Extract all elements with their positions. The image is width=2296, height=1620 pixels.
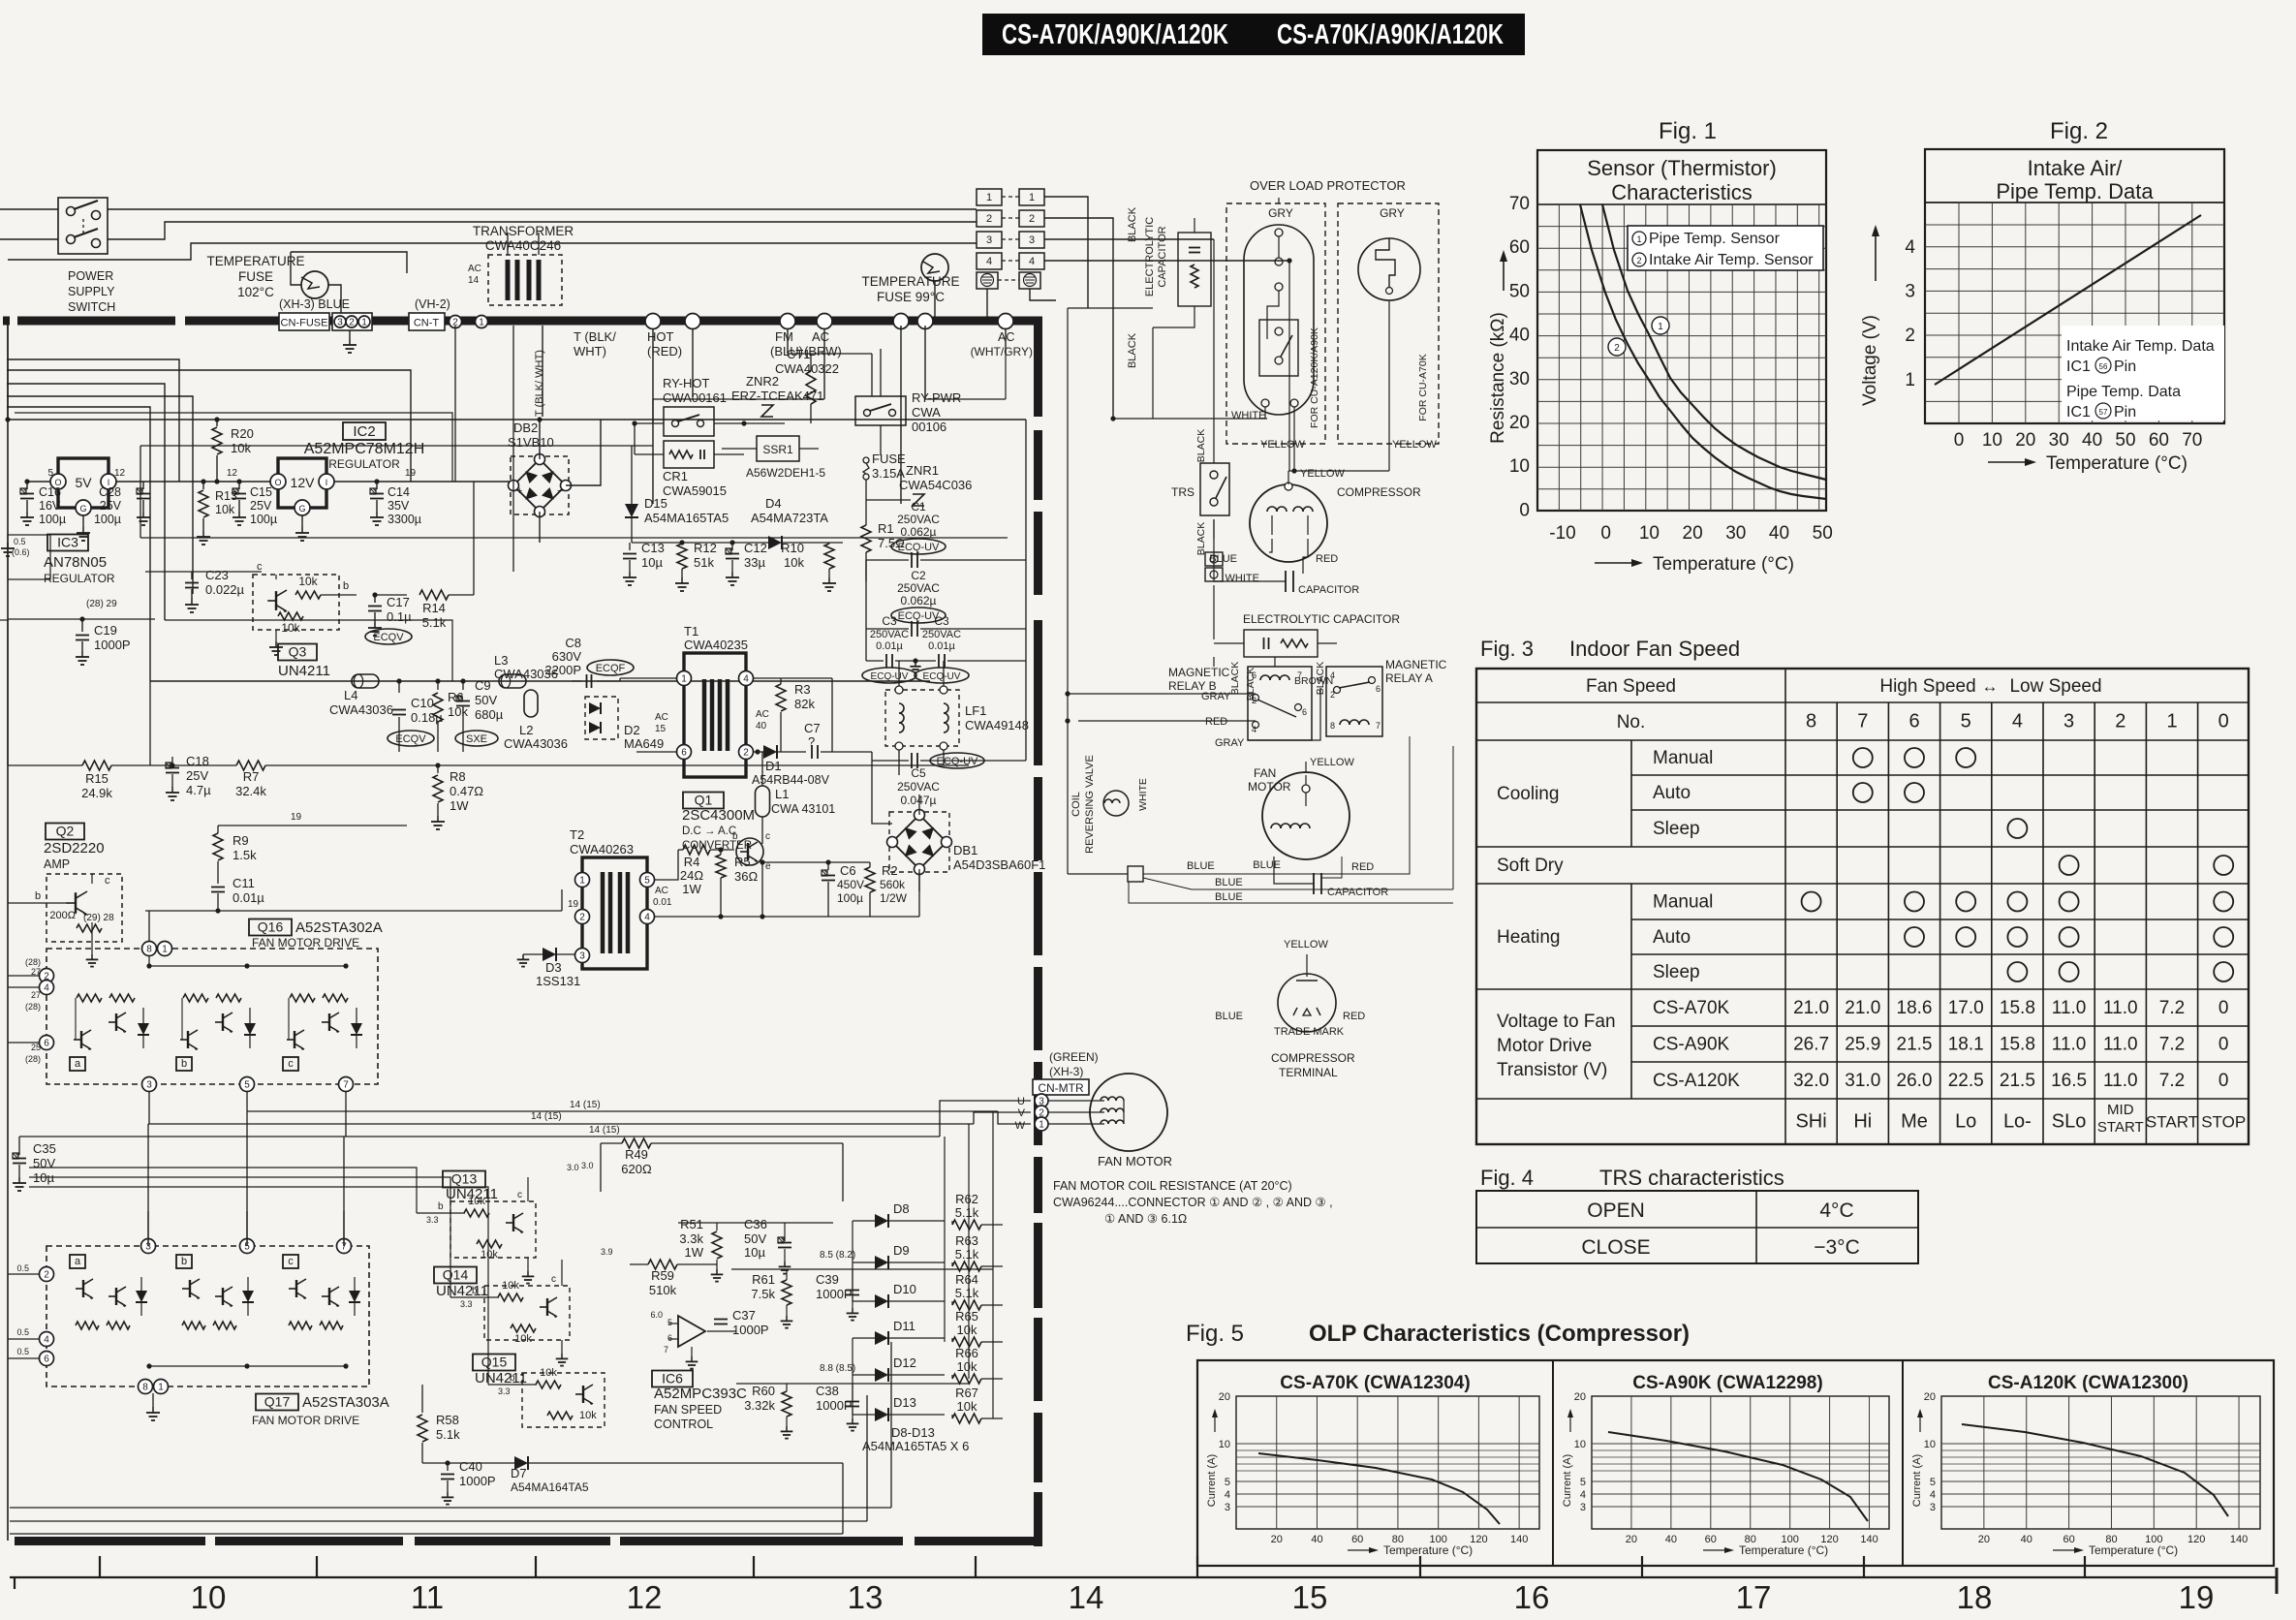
svg-text:MID: MID [2107, 1102, 2134, 1118]
svg-text:1: 1 [361, 318, 367, 328]
svg-text:17.0: 17.0 [1948, 998, 1984, 1018]
svg-text:1000P: 1000P [94, 638, 131, 652]
inductor L4 CWA43036 [352, 674, 379, 688]
svg-text:COIL: COIL [1070, 792, 1082, 817]
capacitor C12 33u [731, 543, 733, 550]
svg-text:MAGNETIC: MAGNETIC [1168, 666, 1230, 679]
svg-text:0.01µ: 0.01µ [876, 640, 903, 652]
svg-text:C5: C5 [911, 766, 926, 780]
resistor R6 10k [437, 681, 439, 690]
curve point markers [1652, 317, 1669, 334]
svg-text:FOR CU-A120K/A90K: FOR CU-A120K/A90K [1309, 327, 1320, 428]
svg-text:0.01µ: 0.01µ [928, 640, 955, 652]
svg-text:25V: 25V [100, 499, 122, 513]
label Q13 UN4211 [443, 1171, 485, 1188]
svg-text:20: 20 [1219, 1391, 1230, 1403]
svg-text:2SC4300M: 2SC4300M [682, 807, 755, 824]
svg-text:50: 50 [1509, 281, 1530, 301]
svg-text:70: 70 [1509, 194, 1530, 214]
svg-text:2: 2 [1252, 696, 1257, 705]
ground below CN-FUSE [349, 330, 351, 339]
svg-text:ECQF: ECQF [596, 663, 626, 674]
svg-text:60: 60 [2149, 430, 2169, 451]
label IC2 A52MPC78M12H regulator [343, 422, 386, 440]
svg-text:b: b [181, 1256, 187, 1267]
svg-text:C16: C16 [39, 485, 61, 499]
svg-text:R63: R63 [955, 1233, 978, 1248]
svg-text:a: a [75, 1256, 81, 1267]
dashed box OLP CU-A70K [1338, 203, 1439, 444]
svg-text:60: 60 [1351, 1534, 1363, 1545]
svg-text:-10: -10 [1549, 523, 1575, 544]
svg-text:Fig. 4: Fig. 4 [1480, 1166, 1534, 1190]
svg-text:4: 4 [2012, 711, 2023, 732]
svg-text:10k: 10k [281, 621, 300, 635]
svg-text:IC1: IC1 [2066, 358, 2091, 375]
svg-text:35V: 35V [388, 499, 410, 513]
svg-text:FAN: FAN [1254, 766, 1276, 780]
svg-text:30: 30 [1509, 369, 1530, 389]
svg-text:R14: R14 [422, 601, 446, 615]
wire 19 line [145, 910, 562, 912]
svg-text:12V: 12V [291, 475, 316, 490]
svg-text:82k: 82k [794, 697, 815, 711]
svg-text:R66: R66 [955, 1346, 978, 1360]
label Q15 UN4211 [473, 1355, 515, 1371]
svg-text:1W: 1W [682, 882, 701, 896]
svg-text:30: 30 [1725, 523, 1746, 544]
svg-text:UN4211: UN4211 [278, 663, 330, 679]
svg-text:D11: D11 [893, 1319, 915, 1333]
svg-text:R59: R59 [651, 1268, 674, 1283]
svg-text:A52STA302A: A52STA302A [295, 919, 383, 936]
svg-text:D8-D13: D8-D13 [891, 1425, 935, 1440]
svg-text:RED: RED [1343, 1011, 1365, 1022]
svg-text:R64: R64 [955, 1272, 978, 1287]
svg-text:15.8: 15.8 [2000, 1035, 2035, 1055]
svg-text:10: 10 [1639, 523, 1660, 544]
svg-text:A52MPC78M12H: A52MPC78M12H [304, 441, 425, 457]
svg-text:Heating: Heating [1497, 927, 1561, 948]
svg-text:TRANSFORMER: TRANSFORMER [473, 224, 574, 238]
svg-text:0.5: 0.5 [16, 1327, 29, 1337]
svg-text:POWER: POWER [68, 269, 113, 283]
svg-text:5.1k: 5.1k [436, 1427, 460, 1442]
svg-text:10k: 10k [231, 441, 251, 455]
svg-text:Soft Dry: Soft Dry [1497, 856, 1564, 876]
fan motor (indoor) [1090, 1074, 1167, 1151]
svg-text:(XH-3) BLUE: (XH-3) BLUE [279, 297, 350, 311]
svg-text:CS-A70K: CS-A70K [1653, 998, 1730, 1018]
svg-text:C39: C39 [816, 1272, 839, 1287]
label IC3 AN78N05 [47, 535, 88, 551]
svg-text:L3: L3 [494, 653, 508, 668]
svg-text:25: 25 [31, 1043, 41, 1052]
svg-text:AN78N05: AN78N05 [44, 554, 107, 571]
svg-text:1: 1 [1636, 234, 1641, 244]
svg-text:10k: 10k [468, 1196, 485, 1207]
svg-text:20: 20 [1978, 1534, 1990, 1545]
svg-text:1W: 1W [685, 1245, 704, 1260]
svg-text:C15: C15 [250, 485, 272, 499]
wires DB2 [539, 420, 541, 459]
svg-text:↔: ↔ [1982, 677, 1999, 696]
diode pair D2 MA649 (dashed) [585, 697, 618, 739]
fig5 curve 1 [1258, 1453, 1500, 1524]
wire resistor column verticals [944, 1137, 946, 1229]
svg-text:2: 2 [1330, 690, 1335, 700]
svg-text:10µ: 10µ [641, 555, 663, 570]
svg-text:T (BLK/: T (BLK/ [574, 329, 616, 344]
wire top rails to connectors [0, 208, 58, 210]
resistor R2 560k 1/2W [865, 867, 875, 892]
diode D12 [853, 1374, 875, 1376]
fig5 curve 3 [1962, 1424, 2228, 1516]
svg-text:WHITE: WHITE [1231, 410, 1265, 421]
svg-text:19: 19 [405, 468, 417, 479]
svg-text:2SD2220: 2SD2220 [44, 840, 105, 857]
svg-text:7: 7 [1857, 711, 1868, 732]
svg-text:0.062µ: 0.062µ [901, 594, 937, 607]
capacitor C16 16V 100u [26, 482, 28, 489]
svg-text:Motor Drive: Motor Drive [1497, 1036, 1592, 1056]
svg-text:50V: 50V [475, 693, 497, 707]
resistor R5 36ohm [716, 855, 726, 878]
rail 5V supply [5, 417, 10, 421]
relay RY-PWR CWA 00106 [855, 396, 906, 425]
svg-text:A54RB44-08V: A54RB44-08V [752, 773, 830, 787]
svg-text:510k: 510k [649, 1283, 677, 1297]
svg-text:U: U [1017, 1096, 1025, 1107]
dashed box OLP CU-A120K/A90K [1226, 203, 1325, 444]
diode D9 [853, 1262, 875, 1263]
svg-text:Temperature (°C): Temperature (°C) [1383, 1543, 1473, 1557]
right thick border (indoor unit) [1034, 321, 1042, 417]
svg-text:10: 10 [1219, 1439, 1230, 1450]
svg-text:15: 15 [1292, 1579, 1328, 1615]
svg-text:40: 40 [1665, 1534, 1677, 1545]
svg-text:D4: D4 [765, 496, 782, 511]
svg-text:CWA43036: CWA43036 [329, 702, 393, 717]
svg-text:Sensor (Thermistor): Sensor (Thermistor) [1587, 156, 1777, 180]
svg-text:Intake Air/: Intake Air/ [2028, 156, 2124, 180]
svg-text:1: 1 [579, 876, 585, 887]
bottom thick bus [15, 1537, 205, 1545]
svg-text:C11: C11 [233, 876, 255, 890]
svg-text:YELLOW: YELLOW [1392, 439, 1437, 451]
svg-text:IC6: IC6 [662, 1371, 683, 1386]
svg-text:3.3: 3.3 [426, 1215, 439, 1225]
svg-text:CS-A70K/A90K/A120K: CS-A70K/A90K/A120K [1277, 19, 1504, 50]
svg-text:3.32k: 3.32k [744, 1398, 775, 1413]
ground IC1 G pin [82, 515, 84, 527]
svg-text:C18: C18 [186, 754, 209, 768]
svg-text:19: 19 [568, 899, 579, 910]
svg-text:7.2: 7.2 [2159, 1071, 2185, 1091]
svg-text:Q14: Q14 [443, 1267, 469, 1283]
svg-text:31.0: 31.0 [1845, 1071, 1880, 1091]
svg-text:V: V [1018, 1107, 1026, 1119]
svg-text:BLACK: BLACK [1127, 332, 1138, 368]
svg-text:19: 19 [2179, 1579, 2215, 1615]
fig2 legend [2062, 326, 2224, 421]
svg-text:0.47Ω: 0.47Ω [450, 784, 483, 798]
svg-text:Lo-: Lo- [2003, 1111, 2032, 1133]
svg-text:BLUE: BLUE [1215, 891, 1243, 903]
svg-text:1SS131: 1SS131 [536, 974, 580, 988]
svg-text:Temperature (°C): Temperature (°C) [1739, 1543, 1828, 1557]
svg-text:0.5: 0.5 [16, 1347, 29, 1356]
svg-text:SWITCH: SWITCH [68, 300, 115, 314]
svg-text:630V: 630V [552, 649, 582, 664]
svg-text:1.5k: 1.5k [233, 848, 257, 862]
svg-text:0: 0 [1954, 430, 1965, 451]
svg-text:D3: D3 [545, 960, 562, 975]
wire q15 base feed [29, 1187, 488, 1385]
svg-text:R65: R65 [955, 1309, 978, 1324]
svg-text:Temperature (°C): Temperature (°C) [2046, 453, 2187, 474]
svg-text:18.6: 18.6 [1897, 998, 1933, 1018]
diode D15 A54MA165TA5 [625, 504, 638, 517]
svg-text:250VAC: 250VAC [897, 513, 940, 526]
svg-text:102°C: 102°C [237, 285, 274, 299]
svg-text:3.9: 3.9 [601, 1247, 613, 1257]
svg-text:OPEN: OPEN [1587, 1199, 1645, 1222]
svg-text:BLACK: BLACK [1229, 662, 1241, 695]
wire heavy accent segments [542, 326, 543, 417]
wire rails upper left [7, 359, 179, 482]
svg-text:2: 2 [2115, 711, 2125, 732]
svg-text:CWA49148: CWA49148 [965, 718, 1029, 732]
svg-text:ECQ-UV: ECQ-UV [871, 671, 909, 682]
svg-text:4: 4 [644, 913, 650, 923]
svg-text:(28): (28) [25, 1002, 41, 1012]
svg-text:C12: C12 [744, 541, 767, 555]
resistor R58 5.1k [421, 1385, 423, 1413]
svg-text:4: 4 [44, 983, 49, 994]
svg-text:YELLOW: YELLOW [1284, 939, 1328, 950]
svg-text:0: 0 [2218, 998, 2229, 1018]
svg-text:6: 6 [44, 1039, 49, 1049]
svg-text:26.7: 26.7 [1793, 1035, 1829, 1055]
svg-text:33µ: 33µ [744, 555, 765, 570]
svg-text:5: 5 [1580, 1477, 1586, 1488]
svg-text:RY-PWR: RY-PWR [912, 390, 961, 405]
OLP stadium (CU-A120K/A90K) [1244, 225, 1314, 415]
wire long verticals from bus area [454, 326, 456, 482]
svg-text:10k: 10k [957, 1399, 977, 1414]
fig2 x axis label [1988, 461, 2027, 463]
svg-text:1: 1 [1905, 370, 1915, 390]
svg-text:L2: L2 [519, 723, 533, 737]
resistor R9 1.5k [217, 826, 219, 833]
capacitor C14 35V 3300u [376, 482, 378, 489]
svg-text:AC: AC [655, 886, 668, 896]
svg-text:ECQ-UV: ECQ-UV [923, 671, 961, 682]
svg-text:50: 50 [1813, 523, 1833, 544]
svg-text:1: 1 [1658, 322, 1663, 332]
svg-text:2: 2 [1029, 213, 1035, 225]
svg-text:Voltage (V): Voltage (V) [1860, 315, 1880, 406]
svg-text:680µ: 680µ [475, 707, 504, 722]
svg-text:50V: 50V [33, 1156, 55, 1170]
earth terminals [977, 272, 998, 289]
svg-text:10k: 10k [784, 555, 804, 570]
svg-text:b: b [472, 1286, 478, 1296]
svg-text:D1: D1 [765, 759, 782, 773]
wire rails to fan motor connector [148, 1123, 974, 1125]
label Q16 A52STA302A fan motor drive [249, 919, 292, 936]
svg-text:14 (15): 14 (15) [531, 1111, 562, 1122]
svg-text:14 (15): 14 (15) [589, 1125, 620, 1136]
svg-text:IC1: IC1 [2066, 404, 2091, 421]
svg-text:D15: D15 [644, 496, 667, 511]
line filter LF1 CWA49148 [885, 690, 959, 746]
resistor R4 24ohm 1W [683, 845, 710, 855]
svg-text:A54D3SBA60F1: A54D3SBA60F1 [953, 857, 1045, 872]
svg-text:14: 14 [1069, 1579, 1104, 1615]
svg-text:A52STA303A: A52STA303A [302, 1394, 389, 1411]
svg-text:5.1k: 5.1k [955, 1286, 979, 1300]
svg-text:00106: 00106 [912, 420, 946, 434]
svg-text:R4: R4 [684, 855, 700, 869]
svg-text:D9: D9 [893, 1243, 910, 1258]
wire 12V input [143, 481, 278, 483]
svg-text:21.0: 21.0 [1845, 998, 1880, 1018]
svg-text:C9: C9 [475, 678, 491, 693]
resistor R13 10k [202, 482, 204, 489]
svg-text:10k: 10k [298, 575, 318, 588]
svg-text:25V: 25V [186, 768, 208, 783]
svg-text:R10: R10 [781, 541, 804, 555]
resistor R7 32.4k [236, 761, 265, 770]
svg-text:O: O [274, 478, 281, 487]
svg-text:FAN MOTOR COIL RESISTANCE (AT: FAN MOTOR COIL RESISTANCE (AT 20°C) [1053, 1179, 1292, 1193]
svg-text:5: 5 [1961, 711, 1971, 732]
small connector 2pin [1205, 552, 1223, 566]
svg-text:GRY: GRY [1268, 206, 1293, 220]
svg-text:BLACK: BLACK [1195, 522, 1207, 555]
svg-text:Cooling: Cooling [1497, 784, 1559, 804]
svg-text:RY-HOT: RY-HOT [663, 376, 709, 390]
svg-text:10k: 10k [957, 1359, 977, 1374]
svg-text:CAPACITOR: CAPACITOR [1157, 226, 1168, 287]
svg-text:13: 13 [848, 1579, 884, 1615]
svg-text:Indoor Fan Speed: Indoor Fan Speed [1569, 637, 1740, 661]
svg-text:3: 3 [1029, 234, 1035, 246]
svg-text:Q3: Q3 [289, 644, 307, 660]
svg-text:ELECTROLYTIC: ELECTROLYTIC [1144, 217, 1156, 296]
svg-text:CWA00161: CWA00161 [663, 390, 727, 405]
svg-text:C14: C14 [388, 485, 410, 499]
svg-text:REGULATOR: REGULATOR [44, 572, 115, 585]
svg-text:1: 1 [681, 674, 687, 685]
svg-text:20: 20 [1509, 413, 1530, 433]
svg-text:(29) 28: (29) 28 [83, 913, 114, 923]
svg-text:8: 8 [1330, 721, 1335, 731]
svg-text:BROWN: BROWN [1294, 675, 1333, 687]
svg-text:8: 8 [142, 1383, 148, 1393]
svg-text:C37: C37 [732, 1308, 756, 1323]
svg-text:ZNR2: ZNR2 [746, 374, 779, 389]
connector block (4-pin, right column) [1019, 189, 1044, 205]
svg-text:Q1: Q1 [695, 793, 713, 808]
svg-text:3: 3 [337, 318, 343, 328]
svg-text:60: 60 [1705, 1534, 1717, 1545]
svg-text:C36: C36 [744, 1217, 767, 1231]
svg-text:T (BLK/ WHT): T (BLK/ WHT) [534, 350, 545, 417]
svg-text:ELECTROLYTIC CAPACITOR: ELECTROLYTIC CAPACITOR [1243, 612, 1400, 626]
svg-text:40: 40 [756, 721, 767, 732]
svg-text:Pipe Temp. Data: Pipe Temp. Data [1996, 179, 2154, 203]
main power bus (top thick line) [3, 317, 10, 326]
svg-text:START: START [2097, 1119, 2144, 1136]
svg-text:FAN MOTOR: FAN MOTOR [1098, 1154, 1172, 1168]
wire main 16V rail [150, 680, 930, 682]
svg-text:GRAY: GRAY [1215, 737, 1245, 749]
fig2 line [1935, 215, 2201, 385]
svg-text:S1VB10: S1VB10 [508, 435, 554, 450]
svg-text:Q2: Q2 [56, 824, 75, 839]
surrounding box of regulator section [165, 620, 452, 681]
capacitor C9 50V 680u [462, 681, 464, 690]
svg-text:4: 4 [44, 1335, 49, 1346]
svg-text:R51: R51 [680, 1217, 703, 1231]
svg-text:0.5: 0.5 [16, 1263, 29, 1273]
svg-text:30: 30 [2049, 430, 2069, 451]
svg-text:50V: 50V [744, 1231, 766, 1246]
svg-text:R49: R49 [625, 1147, 648, 1162]
svg-text:D2: D2 [624, 723, 640, 737]
svg-text:40: 40 [2082, 430, 2102, 451]
resistor R1 7.5ohm [861, 525, 871, 552]
svg-text:25V: 25V [250, 499, 272, 513]
svg-text:CWA43036: CWA43036 [504, 736, 568, 751]
svg-text:C19: C19 [94, 623, 117, 638]
power supply switch [58, 198, 108, 254]
svg-text:WHITE: WHITE [1137, 778, 1149, 811]
svg-text:FOR CU-A70K: FOR CU-A70K [1417, 354, 1429, 421]
svg-text:STOP: STOP [2201, 1113, 2246, 1132]
wire bus to relay row [140, 446, 141, 448]
svg-text:CS-A90K (CWA12298): CS-A90K (CWA12298) [1632, 1373, 1822, 1393]
svg-text:(GREEN): (GREEN) [1049, 1050, 1099, 1064]
bottom ruler [10, 1576, 2277, 1578]
svg-text:4: 4 [743, 674, 749, 685]
svg-text:16: 16 [1514, 1579, 1550, 1615]
svg-text:Pipe Temp. Data: Pipe Temp. Data [2066, 384, 2181, 400]
svg-text:R67: R67 [955, 1386, 978, 1400]
svg-text:Fig. 5: Fig. 5 [1186, 1321, 1244, 1347]
resistor R49 620ohm [622, 1138, 651, 1148]
capacitor C5 250VAC 0.047u ECQ-UV [930, 753, 984, 768]
wires Q16/Q17 verticals [147, 1124, 149, 1246]
svg-text:R12: R12 [694, 541, 717, 555]
inductor L2 CWA43036 [524, 690, 538, 717]
svg-text:MAGNETIC: MAGNETIC [1385, 658, 1447, 671]
svg-text:40: 40 [1769, 523, 1789, 544]
wire lower rails [10, 1507, 891, 1509]
svg-text:10k: 10k [481, 1249, 498, 1261]
svg-text:5.1k: 5.1k [955, 1205, 979, 1220]
svg-text:4: 4 [1580, 1489, 1586, 1501]
svg-text:LF1: LF1 [965, 703, 986, 718]
svg-text:5: 5 [1930, 1477, 1936, 1488]
svg-text:2: 2 [1905, 326, 1915, 346]
svg-text:2: 2 [986, 213, 992, 225]
svg-text:a: a [75, 1058, 81, 1070]
svg-text:CS-A120K: CS-A120K [1653, 1071, 1740, 1091]
